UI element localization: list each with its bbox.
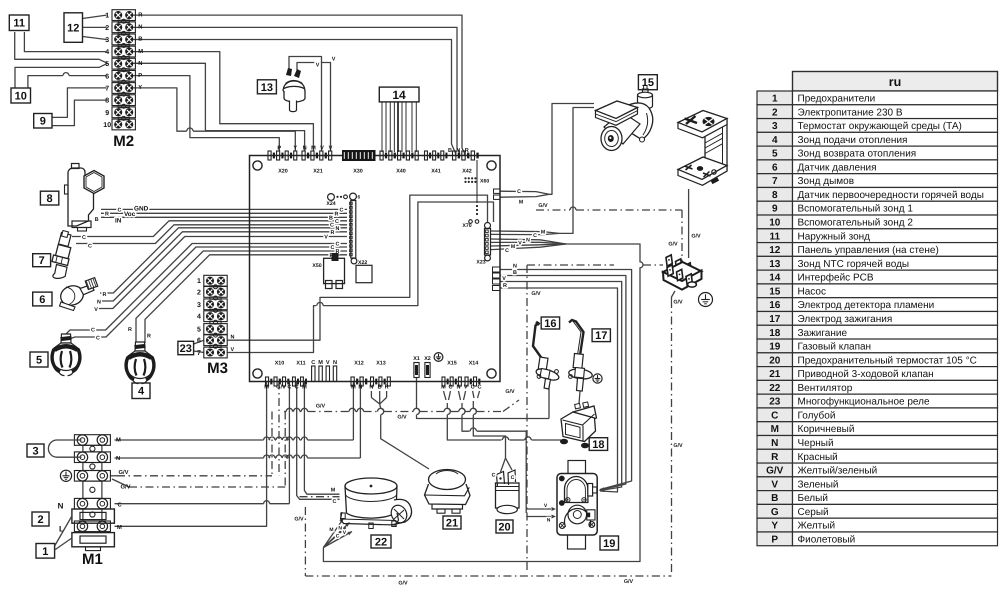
svg-text:M: M (318, 360, 323, 366)
svg-text:22: 22 (375, 536, 387, 548)
svg-text:Y: Y (293, 146, 297, 152)
svg-text:M2: M2 (113, 133, 134, 150)
svg-text:B: B (448, 148, 452, 154)
svg-text:C: C (505, 248, 509, 254)
svg-text:C: C (335, 219, 339, 225)
svg-text:B: B (329, 215, 333, 221)
svg-text:G/V: G/V (276, 384, 286, 391)
svg-text:Панель управления (на стене): Панель управления (на стене) (798, 245, 939, 256)
connector X40 (380, 151, 383, 160)
svg-text:C: C (477, 385, 481, 391)
legend table (757, 72, 998, 546)
svg-text:6: 6 (39, 294, 45, 306)
svg-text:Белый: Белый (798, 493, 828, 504)
svg-text:Зонд NTC горячей воды: Зонд NTC горячей воды (798, 259, 910, 270)
svg-text:C: C (91, 328, 95, 334)
svg-text:X15: X15 (447, 361, 457, 367)
svg-text:X14: X14 (469, 361, 479, 367)
wires sensor13 to X21 (289, 57, 322, 152)
G/V to M1 (117, 475, 272, 477)
svg-text:N: N (231, 335, 235, 341)
svg-text:Электропитание 230 В: Электропитание 230 В (798, 107, 903, 118)
svg-text:V: V (94, 307, 98, 313)
single pins C M V N (312, 366, 315, 382)
svg-text:12: 12 (769, 245, 781, 256)
svg-text:V: V (326, 360, 330, 366)
connector X10 (266, 377, 269, 386)
right edge pins (494, 189, 501, 193)
svg-text:12: 12 (67, 23, 79, 35)
svg-text:M: M (541, 229, 545, 235)
svg-text:G/V: G/V (397, 415, 407, 421)
svg-text:ru: ru (889, 75, 902, 89)
connector X20 (268, 151, 271, 160)
svg-text:3: 3 (772, 121, 778, 132)
svg-text:N: N (336, 226, 340, 232)
svg-text:X50: X50 (312, 263, 321, 269)
svg-text:9: 9 (105, 110, 109, 117)
wire M2-7 Y to X20 (133, 88, 187, 131)
wires sensor5 (64, 244, 347, 337)
svg-text:Приводной 3-ходовой клапан: Приводной 3-ходовой клапан (798, 369, 934, 380)
connector X70 (476, 160, 478, 203)
svg-text:C: C (492, 473, 496, 479)
connector X24 (328, 194, 335, 201)
svg-text:N: N (456, 385, 460, 391)
svg-text:V: V (332, 57, 336, 63)
flue sensor 7 (52, 231, 71, 279)
svg-text:Голубой: Голубой (798, 410, 836, 421)
svg-text:C: C (340, 208, 344, 214)
svg-text:2: 2 (37, 514, 43, 526)
svg-text:G/V: G/V (691, 234, 701, 240)
svg-text:M: M (351, 385, 356, 391)
connector X41 (425, 151, 428, 160)
svg-text:Вспомогательный зонд 1: Вспомогательный зонд 1 (798, 204, 914, 215)
wire M2-6 P to X20 (133, 76, 279, 151)
wires sensor6 (100, 228, 347, 293)
svg-text:N: N (97, 300, 101, 306)
svg-text:X21: X21 (313, 169, 323, 175)
G/V bottom rail (305, 575, 671, 577)
svg-text:8: 8 (47, 193, 53, 205)
svg-text:9: 9 (772, 204, 778, 215)
connector X15 (442, 377, 445, 386)
svg-text:GND: GND (134, 206, 149, 213)
svg-text:1: 1 (772, 93, 778, 104)
svg-text:R: R (331, 230, 335, 236)
svg-text:X2: X2 (424, 356, 431, 362)
svg-text:C: C (96, 336, 100, 342)
ignition unit 18 (560, 402, 597, 448)
svg-text:10: 10 (769, 218, 781, 229)
box 7 (33, 254, 51, 267)
svg-text:23: 23 (180, 343, 192, 355)
wire M2-5 N to X21 (133, 63, 305, 151)
svg-text:X12: X12 (354, 361, 364, 367)
ground symbol M1 (60, 470, 71, 481)
svg-text:V: V (464, 385, 468, 391)
svg-text:R: R (335, 211, 339, 217)
svg-text:G/V: G/V (294, 517, 304, 523)
svg-text:M: M (311, 146, 316, 152)
svg-text:13: 13 (769, 259, 781, 270)
svg-text:X23: X23 (476, 260, 485, 266)
box 3 (27, 444, 44, 457)
svg-text:M: M (511, 244, 515, 250)
wire M2-2 N to X42 (133, 27, 460, 156)
svg-text:Предохранительный термостат 1: Предохранительный термостат 105 °C (798, 355, 977, 366)
svg-text:15: 15 (642, 77, 654, 89)
svg-text:X20: X20 (278, 169, 288, 175)
svg-text:3: 3 (32, 445, 38, 457)
G/V strip to bottom (672, 291, 676, 300)
svg-text:C: C (471, 385, 475, 391)
box 15 (638, 75, 657, 90)
svg-text:M: M (519, 200, 523, 206)
wires box11 (24, 32, 106, 52)
svg-text:B: B (138, 37, 142, 43)
connector X60 (464, 177, 466, 179)
svg-text:G/V: G/V (668, 242, 678, 248)
svg-text:X40: X40 (396, 169, 406, 175)
IC X50 (324, 258, 345, 283)
svg-text:N: N (513, 264, 517, 270)
svg-text:P: P (277, 146, 281, 152)
pump 15 (596, 86, 653, 151)
svg-text:G/V: G/V (624, 579, 634, 585)
box 2 (32, 512, 49, 526)
svg-text:G/V: G/V (531, 291, 541, 297)
box 18 (589, 438, 607, 451)
svg-text:Y: Y (138, 85, 142, 91)
svg-text:M: M (117, 525, 122, 531)
wires sensor4 (136, 251, 347, 343)
svg-text:X70: X70 (462, 223, 471, 229)
box 4 (132, 383, 150, 399)
box 1 (36, 544, 55, 559)
svg-text:22: 22 (769, 383, 781, 394)
svg-text:Желтый/зеленый: Желтый/зеленый (798, 466, 878, 477)
svg-text:14: 14 (392, 88, 406, 102)
mounting bracket (678, 111, 727, 186)
svg-text:N: N (58, 502, 64, 511)
svg-text:R: R (128, 327, 132, 333)
connector X26 strip (350, 193, 357, 200)
svg-text:2: 2 (772, 107, 778, 118)
fan cable stub G/V (300, 496, 340, 498)
svg-text:R: R (105, 212, 109, 218)
box 17 (592, 329, 610, 342)
3-way valve actuator 21 (425, 470, 471, 514)
svg-text:P: P (138, 73, 142, 79)
svg-text:X30: X30 (353, 169, 363, 175)
svg-text:X1: X1 (413, 356, 420, 362)
component square (356, 265, 372, 282)
svg-text:C: C (118, 208, 122, 214)
box 11 (9, 15, 29, 31)
wires box12 to M2 (83, 15, 107, 18)
svg-text:Серый: Серый (798, 507, 829, 518)
svg-text:14: 14 (769, 273, 781, 284)
svg-text:N: N (771, 438, 778, 449)
svg-text:Красный: Красный (798, 452, 838, 463)
svg-text:21: 21 (446, 517, 458, 529)
svg-text:M: M (331, 488, 336, 494)
connector X42 (453, 151, 456, 160)
box 6 (33, 292, 52, 306)
svg-text:V: V (771, 479, 778, 490)
wire X1 to electrode16 (416, 378, 418, 409)
svg-text:1: 1 (197, 278, 201, 285)
box 13 (257, 80, 276, 94)
flame detector electrode 16 (533, 322, 560, 389)
svg-text:N: N (116, 456, 120, 462)
svg-text:C: C (771, 410, 778, 421)
wires box9 (52, 88, 106, 118)
svg-text:N: N (358, 385, 362, 391)
svg-text:21: 21 (769, 369, 781, 380)
svg-text:20: 20 (769, 355, 781, 366)
gas valve 19 (557, 461, 597, 550)
G/V rail right of board (536, 209, 570, 211)
svg-text:M: M (302, 385, 307, 391)
svg-text:G: G (771, 507, 779, 518)
svg-text:2: 2 (105, 25, 109, 32)
svg-text:C: C (448, 385, 452, 391)
ground symbol strip (699, 293, 713, 307)
svg-text:B: B (513, 270, 517, 276)
svg-text:IN: IN (115, 218, 122, 225)
pressure sensor 6 (58, 278, 98, 311)
DHW priority sensor 8 (65, 164, 105, 232)
svg-text:Наружный зонд: Наружный зонд (798, 231, 871, 242)
svg-text:20: 20 (498, 521, 510, 533)
NTC sensor 13 (283, 68, 305, 112)
svg-text:Voc: Voc (124, 211, 136, 218)
svg-text:G/V: G/V (766, 466, 784, 477)
wires X11 M C to fan stub (304, 382, 339, 495)
connector M3 (197, 275, 234, 377)
svg-text:G/V: G/V (673, 443, 683, 449)
wires box23 (194, 340, 204, 344)
svg-text:C: C (517, 189, 521, 195)
svg-text:R: R (503, 283, 507, 289)
wires sensor7 (72, 221, 347, 237)
wire M3-6 N nested (227, 195, 487, 340)
svg-text:R: R (147, 334, 151, 340)
board edge pump wires C M (500, 191, 549, 194)
svg-text:V: V (518, 241, 522, 247)
svg-text:4: 4 (197, 314, 201, 321)
svg-text:R: R (385, 385, 389, 391)
connector X21 (302, 151, 305, 160)
svg-text:11: 11 (13, 18, 25, 30)
svg-text:19: 19 (603, 538, 615, 550)
svg-text:3: 3 (105, 37, 109, 44)
svg-text:V: V (316, 63, 320, 69)
svg-text:8: 8 (105, 98, 109, 105)
svg-text:M1: M1 (82, 551, 103, 568)
fan cable to bundle (323, 267, 640, 561)
svg-text:Датчик первоочередности горяче: Датчик первоочередности горячей воды (798, 190, 984, 201)
svg-text:3: 3 (197, 302, 201, 309)
G/V vertical to fan area (304, 507, 306, 576)
svg-text:R: R (771, 452, 779, 463)
sensor 4 (126, 342, 155, 384)
svg-text:Зонд возврата отопления: Зонд возврата отопления (798, 149, 917, 160)
svg-text:1: 1 (105, 13, 109, 20)
connector X13 (371, 377, 374, 386)
svg-text:13: 13 (261, 82, 273, 94)
box 8 (40, 191, 58, 205)
box 5 (30, 352, 48, 367)
svg-text:17: 17 (769, 314, 781, 325)
svg-text:V: V (324, 235, 328, 241)
board corner holes (253, 161, 262, 170)
svg-text:G/V: G/V (316, 404, 326, 410)
sensor 5 (52, 334, 81, 376)
svg-text:11: 11 (769, 231, 780, 242)
wires X13 to valve 21 (370, 391, 372, 398)
svg-text:Коричневый: Коричневый (798, 424, 855, 435)
svg-text:M: M (771, 424, 779, 435)
G/V loop around igniters (527, 264, 614, 266)
svg-text:10: 10 (15, 90, 27, 102)
wire X10 M to M1 (115, 382, 267, 527)
svg-text:X13: X13 (376, 361, 386, 367)
svg-text:Черный: Черный (798, 438, 834, 449)
svg-text:N: N (547, 518, 551, 524)
svg-text:C: C (295, 385, 299, 391)
wire TA loop (48, 440, 81, 457)
svg-text:16: 16 (769, 300, 781, 311)
svg-text:10: 10 (103, 122, 111, 129)
wire X11 C to M1 (288, 382, 290, 504)
svg-text:N: N (303, 146, 307, 152)
svg-text:Насос: Насос (798, 286, 826, 297)
svg-text:18: 18 (769, 328, 781, 339)
wire M2-1 R to X42 (133, 15, 465, 156)
box 19 (600, 536, 619, 550)
svg-text:4: 4 (772, 135, 778, 146)
svg-text:X60: X60 (480, 179, 489, 185)
svg-text:Термостат окружающей среды (ТА: Термостат окружающей среды (ТА) (798, 121, 962, 132)
svg-text:N: N (369, 385, 373, 391)
ground symbol on board (434, 353, 443, 362)
svg-text:Зонд подачи отопления: Зонд подачи отопления (798, 135, 908, 146)
wires sensor8 (101, 208, 347, 210)
svg-text:C: C (287, 385, 291, 391)
wires X14 to gas valve V N (459, 391, 461, 400)
ignition electrode 17 (568, 320, 602, 391)
G/V drop X10 (278, 382, 280, 476)
svg-text:N: N (333, 360, 337, 366)
svg-text:Газовый клапан: Газовый клапан (798, 342, 872, 353)
svg-text:16: 16 (544, 318, 556, 330)
svg-text:Зонд дымов: Зонд дымов (798, 176, 855, 187)
connector M2 (103, 10, 143, 150)
wires X14 to thermostat 20 (473, 391, 474, 398)
svg-text:X10: X10 (275, 361, 285, 367)
svg-text:5: 5 (36, 354, 42, 366)
svg-text:P: P (771, 534, 778, 545)
svg-text:6: 6 (197, 338, 201, 345)
svg-text:B: B (378, 385, 382, 391)
svg-text:M3: M3 (207, 360, 228, 377)
box 22 (371, 535, 391, 548)
svg-text:V: V (231, 347, 235, 353)
box 9 (34, 114, 52, 129)
svg-text:C: C (311, 360, 315, 366)
svg-text:C: C (82, 235, 86, 241)
svg-text:Вспомогательный зонд 2: Вспомогательный зонд 2 (798, 218, 914, 229)
box 23 (178, 341, 194, 355)
svg-text:7: 7 (772, 176, 778, 187)
svg-text:2: 2 (197, 289, 201, 296)
fan feed arrows (323, 519, 343, 548)
svg-text:5: 5 (105, 61, 109, 68)
svg-text:C: C (533, 233, 537, 239)
svg-text:C: C (333, 499, 337, 505)
earth terminal strip (663, 255, 713, 307)
wire M3-7 V nested (227, 309, 313, 353)
svg-text:6: 6 (358, 195, 361, 201)
connector X23 (485, 223, 491, 229)
svg-text:R: R (103, 292, 107, 298)
box 12 (64, 13, 83, 43)
svg-text:M: M (116, 438, 121, 444)
fan 22 (341, 478, 412, 529)
wire M2-4 M to X21 (133, 52, 313, 151)
svg-text:B: B (95, 217, 99, 223)
wire X12 N to M1 (359, 382, 361, 459)
svg-text:6: 6 (772, 162, 778, 173)
svg-text:4: 4 (138, 386, 145, 398)
connector X12 (351, 377, 354, 386)
svg-text:Интерфейс PCB: Интерфейс PCB (798, 273, 874, 284)
svg-text:N: N (138, 61, 142, 67)
PCB main board (250, 146, 501, 391)
wires N B V R to gas valve (500, 270, 632, 490)
bracket wire (688, 189, 690, 258)
svg-text:R: R (465, 148, 469, 154)
wires box10 (15, 63, 108, 88)
svg-text:Электрод детектора пламени: Электрод детектора пламени (798, 300, 935, 311)
svg-text:X24: X24 (326, 201, 335, 207)
X23 quad wires N V M C (491, 239, 566, 244)
G/V drop to terminal strip (681, 210, 683, 263)
svg-text:G/V: G/V (673, 300, 683, 306)
svg-text:N: N (526, 237, 530, 243)
svg-text:V: V (502, 276, 506, 282)
svg-text:Зеленый: Зеленый (798, 479, 839, 490)
box 21 (443, 516, 461, 529)
svg-text:Желтый: Желтый (798, 521, 836, 532)
svg-text:19: 19 (769, 342, 781, 353)
svg-text:C: C (331, 245, 335, 251)
svg-text:6: 6 (105, 73, 109, 80)
wire electrode17 (579, 391, 580, 404)
svg-text:9: 9 (40, 116, 46, 128)
box 16 (541, 317, 559, 330)
svg-text:Фиолетовый: Фиолетовый (798, 534, 856, 545)
svg-text:5: 5 (197, 327, 201, 334)
connector X14 (465, 377, 468, 386)
svg-text:V: V (329, 146, 333, 152)
svg-text:M: M (138, 49, 143, 55)
connector X30 (342, 150, 376, 161)
